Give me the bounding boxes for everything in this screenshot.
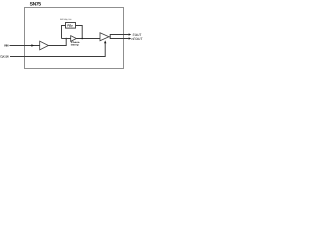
wire VIN xyxy=(10,45,40,47)
wire FOUT xyxy=(109,35,129,37)
arrowhead on VIN wire xyxy=(31,44,34,46)
input VIN label xyxy=(4,44,9,48)
svg-text:FOUT: FOUT xyxy=(133,33,142,37)
wire delay feedback right xyxy=(76,26,83,39)
svg-text:SN75: SN75 xyxy=(30,1,42,7)
node junction feedback tap xyxy=(81,38,83,40)
delay line block U2 xyxy=(66,23,76,29)
arrowhead FOUT xyxy=(129,33,132,35)
oscillator amp A2 xyxy=(71,36,77,42)
node junction buffer/feedback xyxy=(65,38,67,40)
svg-text:Phase: Phase xyxy=(71,41,80,44)
svg-text:VIN: VIN xyxy=(4,44,9,48)
wire node to oscillator input xyxy=(62,38,71,40)
svg-text:Unit: Unit xyxy=(60,18,63,21)
label phase interp line1 xyxy=(71,41,80,44)
IC boundary box xyxy=(25,8,124,69)
wire oscillator output xyxy=(76,38,100,40)
background xyxy=(0,0,148,71)
label phase interp line2 xyxy=(71,44,79,47)
svg-text:Interp: Interp xyxy=(71,44,79,47)
input CLK_EN label xyxy=(0,55,8,59)
svg-text:nFOUT: nFOUT xyxy=(132,37,143,41)
wire delay feedback left xyxy=(62,26,66,39)
svg-text:Delay: Delay xyxy=(64,18,68,21)
arrowhead nFOUT xyxy=(129,37,132,39)
label Unit Delay Line xyxy=(60,18,72,21)
svg-text:CLK_EN: CLK_EN xyxy=(0,55,8,59)
output driver A3 xyxy=(100,33,109,41)
label FOUT xyxy=(133,33,142,37)
svg-text:Line: Line xyxy=(69,18,72,21)
wire nFOUT xyxy=(110,37,128,39)
wire buffer output xyxy=(48,39,66,46)
buffer amp A1 xyxy=(40,41,49,50)
label nFOUT xyxy=(132,37,143,41)
svg-text:Pβγ: Pβγ xyxy=(67,24,72,27)
wire CLK_EN xyxy=(10,42,105,57)
arrowhead CLK_EN enable xyxy=(104,40,106,43)
